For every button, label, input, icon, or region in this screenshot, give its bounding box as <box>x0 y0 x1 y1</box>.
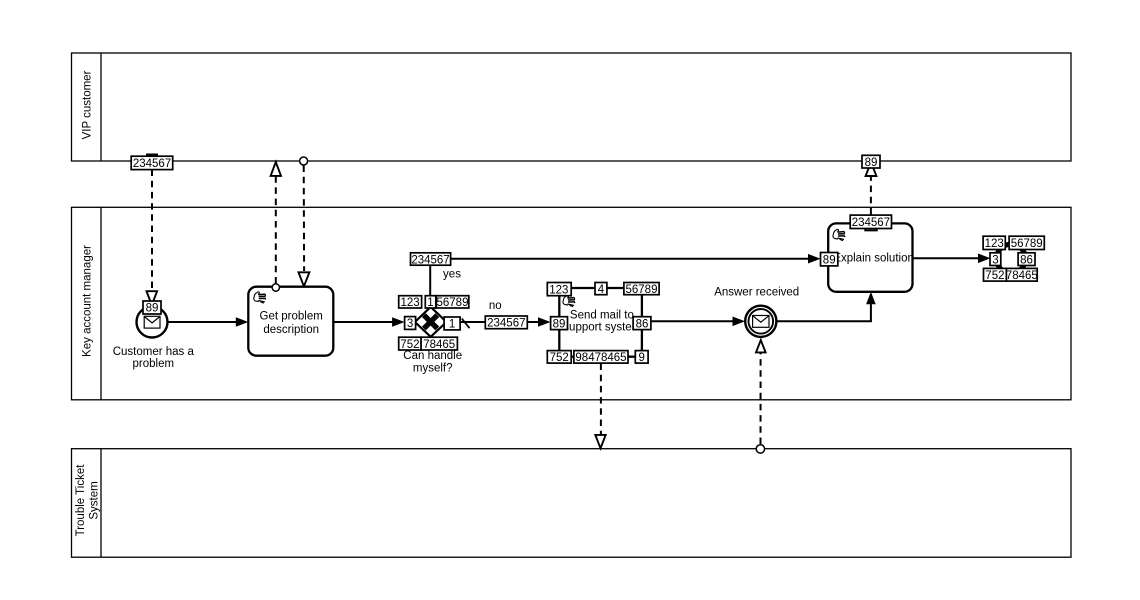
sequence flow Answer received to Explain solution <box>777 292 876 322</box>
token box 3 end event left <box>990 253 1001 267</box>
svg-text:Trouble Ticket: Trouble Ticket <box>75 464 87 537</box>
svg-text:234567: 234567 <box>852 217 890 229</box>
message flow VIP customer to Get problem description <box>299 157 310 286</box>
svg-text:Explain solution: Explain solution <box>833 253 914 265</box>
sequence flow yes: gateway to Explain solution <box>430 254 820 309</box>
start event Customer has a problem <box>137 307 168 338</box>
message flow Explain solution to VIP customer <box>866 162 877 215</box>
svg-text:234567: 234567 <box>487 318 525 330</box>
token box 78465 end event bottom-right <box>1006 268 1038 282</box>
svg-text:86: 86 <box>1020 255 1033 267</box>
svg-text:89: 89 <box>553 319 566 331</box>
token box 4 Send mail top <box>595 283 607 297</box>
svg-text:56789: 56789 <box>437 297 469 309</box>
svg-text:752: 752 <box>985 270 1004 282</box>
svg-text:89: 89 <box>823 254 836 266</box>
svg-text:9: 9 <box>638 352 644 364</box>
lane VIP customer <box>72 53 1072 161</box>
svg-text:3: 3 <box>992 255 998 267</box>
gateway Can handle myself? <box>415 307 447 337</box>
svg-text:description: description <box>263 324 319 336</box>
svg-text:234567: 234567 <box>411 254 449 266</box>
message flow Trouble Ticket System to Answer received <box>756 340 766 453</box>
manual task hand icon <box>254 292 266 303</box>
task Explain solution <box>828 223 914 291</box>
token box 123 Send mail top-left <box>547 283 571 297</box>
svg-text:Can handle: Can handle <box>403 350 462 362</box>
token box 86 Send mail right <box>633 317 651 331</box>
manual task hand icon <box>833 229 845 240</box>
token box 234567 on lane border <box>131 156 173 170</box>
svg-text:support system: support system <box>563 322 641 334</box>
token box 98478465 Send mail bottom <box>574 351 628 365</box>
token box 9 Send mail bottom-right <box>635 351 648 365</box>
svg-text:1: 1 <box>427 297 433 309</box>
svg-text:56789: 56789 <box>1011 238 1043 250</box>
end event (behind token boxes) <box>997 244 1026 273</box>
svg-text:1: 1 <box>449 319 455 331</box>
token box 89 at start event <box>143 301 161 315</box>
sequence flow start to Get problem description <box>168 317 249 327</box>
token box 3 gateway left <box>405 317 416 331</box>
token box 1 gateway right <box>444 317 460 331</box>
token box 89 Explain solution left <box>821 253 838 267</box>
lane Key account manager <box>72 207 1072 399</box>
token box 56789 end event top-right <box>1009 236 1044 250</box>
token box 89 Send mail left <box>551 317 568 331</box>
task Send mail to support system <box>559 288 642 357</box>
svg-text:98478465: 98478465 <box>575 352 626 364</box>
svg-text:86: 86 <box>636 319 649 331</box>
svg-text:752: 752 <box>400 339 419 351</box>
svg-text:Answer received: Answer received <box>714 287 799 299</box>
svg-text:myself?: myself? <box>413 362 453 374</box>
token box 752 Send mail bottom-left <box>547 351 571 365</box>
svg-text:yes: yes <box>443 269 461 281</box>
lane Trouble Ticket System <box>72 449 1072 558</box>
default flow slash <box>462 319 470 329</box>
message flow VIP customer to start event <box>146 154 158 306</box>
token box 123 gateway top-left <box>399 296 422 309</box>
intermediate event Answer received <box>745 306 776 337</box>
svg-text:123: 123 <box>985 238 1004 250</box>
svg-text:Key account manager: Key account manager <box>81 245 93 357</box>
sequence flow no: gateway to Send mail <box>460 317 551 328</box>
token box 234567 on no flow <box>485 316 527 330</box>
message flow source circle (peeking below token box) <box>865 222 877 230</box>
token box 78465 gateway bottom-right <box>421 337 457 351</box>
svg-text:VIP customer: VIP customer <box>81 70 93 139</box>
token box 752 gateway bottom-left <box>399 337 421 351</box>
svg-text:89: 89 <box>865 157 878 169</box>
svg-text:Send mail to: Send mail to <box>570 310 634 322</box>
svg-text:no: no <box>489 300 502 312</box>
svg-text:78465: 78465 <box>1006 270 1038 282</box>
token box 86 end event right <box>1018 253 1035 267</box>
svg-text:4: 4 <box>598 284 605 296</box>
task Get problem description <box>248 287 333 356</box>
svg-text:234567: 234567 <box>133 158 171 170</box>
svg-text:3: 3 <box>407 318 413 330</box>
token box 56789 Send mail top-right <box>624 283 659 297</box>
svg-text:123: 123 <box>401 297 420 309</box>
svg-text:Customer has a: Customer has a <box>113 346 195 358</box>
message flow Get problem description to VIP customer <box>271 162 281 284</box>
svg-text:89: 89 <box>146 303 159 315</box>
sequence flow Send mail to Answer received <box>651 317 745 327</box>
token box 234567 above Explain solution <box>850 215 891 229</box>
svg-text:56789: 56789 <box>626 284 658 296</box>
token box 752 end event bottom-left <box>984 268 1007 282</box>
svg-text:Get problem: Get problem <box>260 310 323 322</box>
sequence flow Get problem description to gateway <box>333 317 404 327</box>
message flow source circle on task top <box>272 284 279 291</box>
sequence flow Explain solution to end event <box>913 254 991 264</box>
message flow Send mail to Trouble Ticket System <box>595 364 605 449</box>
token box 89 on lane border above Explain solution <box>862 155 880 169</box>
token box 234567 above gateway <box>411 253 451 266</box>
svg-text:78465: 78465 <box>423 339 455 351</box>
svg-text:problem: problem <box>133 358 175 370</box>
svg-text:752: 752 <box>550 352 569 364</box>
manual task hand icon <box>563 295 575 306</box>
token box 56789 gateway top-right <box>436 296 469 309</box>
svg-text:System: System <box>89 481 101 519</box>
token box 1 gateway top <box>425 296 436 309</box>
token box 123 end event top-left <box>983 236 1005 250</box>
svg-text:123: 123 <box>549 284 568 296</box>
